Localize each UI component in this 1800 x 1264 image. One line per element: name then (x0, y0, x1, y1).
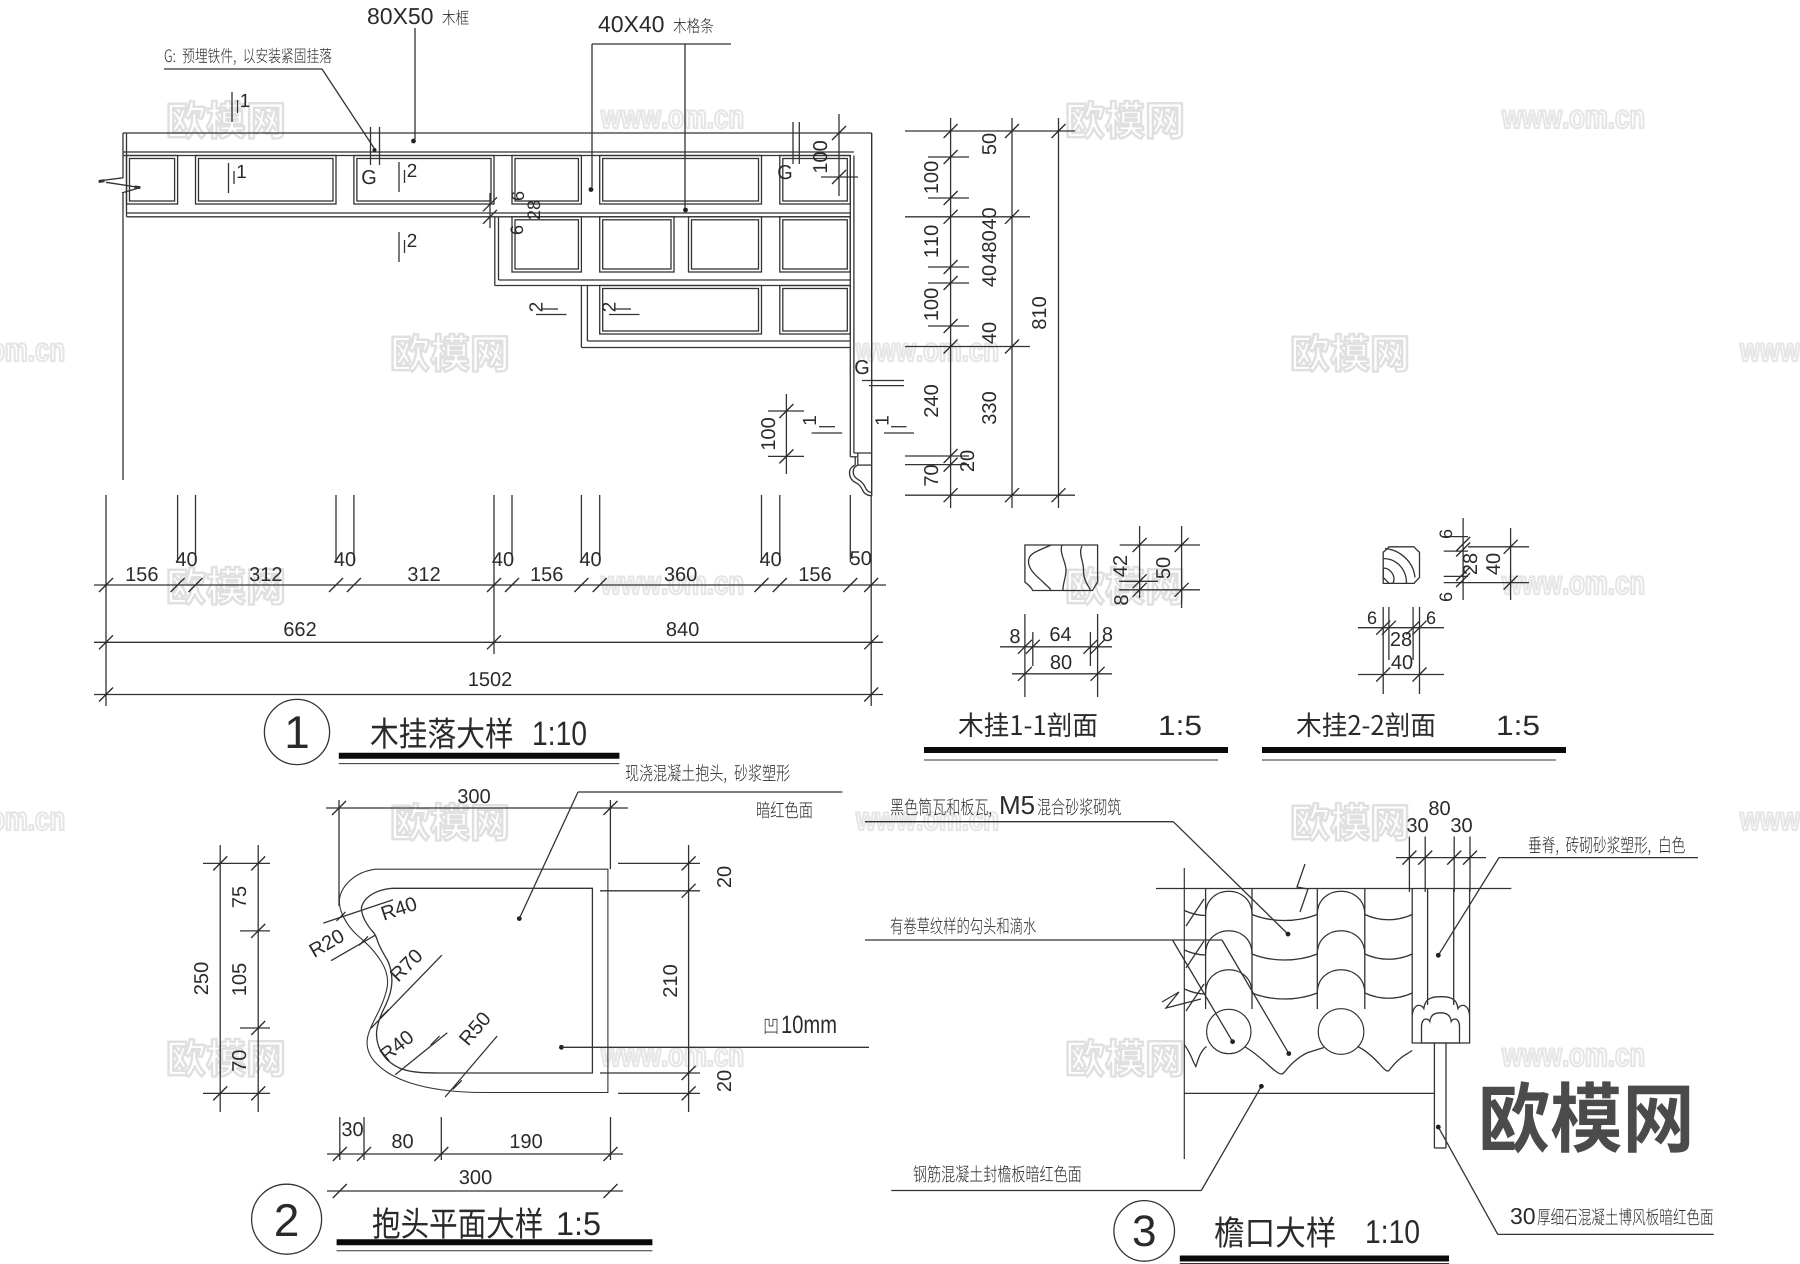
lattice row2 opening 1 inner (515, 220, 578, 269)
G mark 3 (855, 360, 868, 374)
right stile scroll top (858, 464, 872, 466)
leader recess 10mm note (559, 1045, 564, 1050)
lattice row2 opening 4 inner (783, 220, 848, 269)
dimension row 156/40/312/40/312/40/156/40/360/40/156/50 (94, 584, 886, 586)
lattice row1 opening 1 outer (127, 156, 178, 205)
radius R50 leader (445, 1036, 497, 1097)
flat tile courses band middle 2 (1365, 915, 1412, 920)
leader fascia board note (914, 1165, 1081, 1182)
section 1-1 wood grain (1028, 545, 1051, 591)
rail 3 line b / lattice bottom outer (581, 347, 850, 349)
section mark 2 low right (602, 303, 639, 315)
detail 2 left dimensions (203, 862, 270, 864)
leader ridge note (1529, 836, 1685, 855)
lattice row1 opening 5 outer (600, 156, 762, 205)
dimension row 1502 (94, 694, 883, 696)
right stile neck left (854, 457, 856, 465)
section 2-2 bottom dims (1382, 607, 1384, 694)
right stile scroll ornament outer (849, 465, 871, 496)
radius R40 upper leader (323, 900, 393, 923)
break symbol on top line (1297, 864, 1308, 912)
right stile outer edge (871, 133, 873, 496)
lattice row2 opening 3 inner (692, 220, 759, 269)
right stile cap top (854, 452, 872, 454)
step outline 1 inner (498, 217, 500, 280)
rail 2 line b (495, 285, 851, 287)
title section 2-2 (1297, 712, 1435, 737)
round tile column 1 (1205, 889, 1207, 1010)
section mark 2 row1 (399, 162, 416, 192)
wall line left outer lower (122, 193, 124, 480)
leader barge board note (1511, 1208, 1535, 1224)
note G anchor leader (165, 48, 332, 65)
section 1-1 right dims (1120, 544, 1200, 546)
lattice row3 opening 2 outer (780, 286, 851, 335)
radius R70 leader (371, 955, 442, 1028)
radius R40 lower leader (395, 1033, 447, 1075)
break symbol on left wall (1162, 992, 1201, 1008)
title circle 1 (264, 699, 329, 764)
lattice row1 opening 2 inner (199, 159, 334, 202)
fascia line (1184, 1092, 1434, 1094)
lattice row1 opening 3 outer (354, 156, 494, 205)
lattice row3 opening 1 outer (600, 286, 762, 335)
right dim labels (924, 162, 938, 193)
title section 1-1 (959, 712, 1097, 737)
lattice row1 opening 6 inner (783, 159, 848, 202)
radius R20 leader (331, 935, 375, 961)
title detail 2 (373, 1207, 542, 1238)
right stile neck right (857, 453, 859, 465)
right dim line col 1 (950, 118, 952, 508)
section 2-2 right dims (1444, 536, 1468, 538)
detail 2 baotou inner recess outline (361, 888, 592, 1073)
lattice row2 opening 1 outer (512, 217, 581, 272)
detail 2 right dimensions (618, 862, 700, 864)
lattice row3 opening 1 inner (603, 289, 759, 332)
round tile column 2 (1316, 889, 1318, 1010)
watermark grid (0, 101, 1800, 1077)
wall line left inner (126, 133, 128, 217)
wood frame bottom edge line 1 (123, 151, 854, 153)
drip tile scalloped bottom edge (1184, 1045, 1206, 1067)
leader black tile note (891, 798, 991, 817)
lattice row1 opening 1 inner (130, 159, 175, 202)
wall line left outer upper (122, 133, 124, 178)
break symbol left wall (99, 178, 123, 181)
title underline thin 1 (339, 763, 620, 765)
right stile cap step (850, 456, 857, 458)
section 2-2 wood grain arcs (1383, 568, 1394, 583)
eave top line (1156, 888, 1511, 890)
lattice row2 opening 2 outer (600, 217, 674, 272)
dimension row 662/840 (94, 641, 883, 643)
eave left wall line (1183, 868, 1185, 1159)
hatch ticks left band (1186, 899, 1204, 926)
section mark 2 low left (529, 303, 566, 315)
right stile inner edge line 2 (853, 156, 855, 454)
flat tile courses band left (1184, 911, 1205, 916)
dimension 30/80/30 ridge (1408, 837, 1410, 892)
watermark logo large (1483, 1081, 1690, 1153)
G mark 1 (792, 122, 794, 164)
dimension 100 top right (838, 114, 840, 196)
flat tile courses band middle 1 (1252, 915, 1317, 921)
right dim line col 2 (1011, 118, 1013, 508)
lattice row1 opening 2 outer (196, 156, 337, 205)
right stile scroll ornament inner (853, 465, 872, 493)
title circle 3 (1114, 1201, 1175, 1262)
detail 1 right dimension extension lines (905, 130, 1075, 132)
note 40X40 lattice strip (599, 16, 664, 32)
title detail 3 (1215, 1216, 1335, 1247)
right stile inner edge line 1 (849, 156, 851, 457)
detail 1 bottom dimension extension lines (105, 495, 107, 706)
section 1-1 bottom dims (1024, 614, 1026, 697)
section mark 1 top (232, 92, 249, 122)
section mark 1 bottom right (875, 416, 888, 424)
wood frame top edge (123, 132, 872, 134)
section 1-1 wood piece (1025, 545, 1098, 591)
section 2-2 wood piece (1383, 547, 1419, 584)
step outline 1 outer (494, 217, 496, 286)
right dim line col 3 (1058, 118, 1060, 508)
dimension 100 lower right (785, 394, 787, 474)
rail 2 line a (499, 279, 851, 281)
barge board strip (1433, 1043, 1435, 1148)
lattice row1 opening 6 outer (780, 156, 851, 205)
lattice row1 opening 3 inner (357, 159, 491, 202)
lattice row1 opening 4 inner (515, 159, 578, 202)
rail 1 line a (127, 212, 851, 214)
rail 3 line a / lattice bottom inner (587, 340, 850, 342)
lattice row2 opening 4 outer (780, 217, 851, 272)
lattice row1 opening 4 outer (512, 156, 581, 205)
lattice row1 opening 5 inner (603, 159, 759, 202)
lattice row2 opening 3 outer (689, 217, 762, 272)
section mark 1 bottom left (803, 416, 816, 424)
leader cast concrete baotou note (517, 916, 522, 921)
section mark 1 row1 (229, 163, 246, 193)
G mark 2 ticks (370, 127, 372, 165)
ridge cloud ornament inner (1422, 1013, 1460, 1043)
section mark 2 below rail (399, 232, 416, 262)
ridge cloud ornament outer (1412, 997, 1469, 1043)
note 80X50 wood frame (368, 8, 433, 24)
lattice row3 opening 2 inner (783, 289, 848, 332)
detail 2 bottom dimensions (339, 1117, 341, 1160)
wood frame bottom edge line 2 (123, 155, 850, 157)
leader hook/drip tile note (891, 917, 1036, 934)
rail 1 line b (127, 216, 851, 218)
step outline 2 outer (580, 286, 582, 348)
title detail 1 (371, 717, 512, 748)
title circle 2 (252, 1184, 322, 1254)
dimension 6/28/6 rail (489, 193, 491, 228)
detail 2 top dimension 300 (338, 800, 340, 906)
ridge vertical lines (1411, 889, 1413, 1016)
detail 2 baotou outer outline (339, 869, 608, 1092)
lattice row2 opening 2 inner (603, 220, 671, 269)
step outline 2 inner (586, 286, 588, 342)
